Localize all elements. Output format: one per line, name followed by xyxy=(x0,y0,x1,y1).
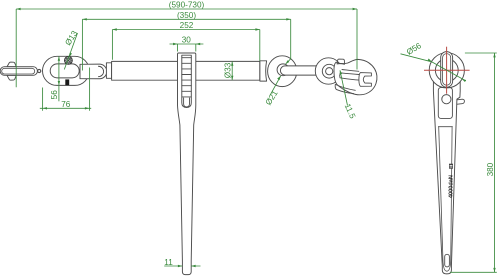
dia21 leader xyxy=(270,76,281,95)
svg-text:(590-730): (590-730) xyxy=(169,1,205,10)
dia56 leader xyxy=(401,54,466,81)
panel hole xyxy=(442,95,451,104)
arrows (590-730) xyxy=(16,8,357,10)
arrow dia13 xyxy=(70,53,72,57)
handle marking text xyxy=(449,164,455,198)
arrows 76 xyxy=(43,107,90,109)
arrows 56 xyxy=(58,56,60,85)
svg-text:11: 11 xyxy=(164,258,173,267)
dim 252 line xyxy=(112,29,259,31)
centerlines xyxy=(424,47,470,94)
ratchet rungs xyxy=(182,58,192,97)
link wire cross-section (hatched) xyxy=(65,57,73,65)
dia13 leader xyxy=(64,33,77,70)
dim 56 line xyxy=(58,56,60,101)
dim (350) line xyxy=(82,18,290,20)
centerline vertical xyxy=(446,47,448,94)
dim 76 line xyxy=(40,107,91,109)
svg-text:252: 252 xyxy=(180,21,194,30)
svg-text:30: 30 xyxy=(182,36,192,45)
dim (590-730) line xyxy=(16,8,357,10)
arrows 252 xyxy=(112,28,259,30)
pawl lever xyxy=(454,99,464,104)
dim 30 line xyxy=(170,43,204,45)
svg-text:4000daN: 4000daN xyxy=(449,175,455,198)
ratchet head circle xyxy=(429,53,464,88)
arrows dia33 xyxy=(231,61,233,80)
right hook latch tab xyxy=(337,59,345,64)
slot bottom detail xyxy=(184,98,190,107)
connecting rod xyxy=(280,66,329,75)
swivel collar xyxy=(106,63,111,79)
svg-text:380: 380 xyxy=(486,162,495,176)
arrow 11.5 xyxy=(340,70,343,74)
ratchet housing xyxy=(178,53,196,275)
left grab hook xyxy=(0,62,41,80)
svg-text:Ø33: Ø33 xyxy=(224,62,233,78)
svg-text:Ø13: Ø13 xyxy=(63,29,79,47)
left oval link xyxy=(43,56,90,85)
side handle inner outline xyxy=(439,127,452,272)
centerline horizontal xyxy=(424,69,470,71)
right hook jaw slot xyxy=(340,70,359,81)
right hook rod ring xyxy=(322,64,336,78)
arrows 30 xyxy=(173,43,200,45)
side handle top panel xyxy=(438,88,452,119)
right eye xyxy=(268,56,297,87)
svg-text:11.5: 11.5 xyxy=(343,102,358,120)
right collar xyxy=(260,61,267,81)
arrow dia21 xyxy=(277,76,281,80)
link end-on (stadium) xyxy=(441,52,453,88)
arrows 11 xyxy=(178,265,196,267)
eye hole xyxy=(277,64,289,76)
right hook fork claw xyxy=(359,73,372,87)
arrows 380 xyxy=(493,53,495,272)
arrows (350) xyxy=(82,18,290,64)
right hook chain channel xyxy=(335,84,355,93)
dim 380 xyxy=(494,53,496,272)
svg-text:(350): (350) xyxy=(177,11,196,20)
barrel body xyxy=(112,61,260,80)
ratchet head inner circle xyxy=(435,59,458,82)
weld mark on link xyxy=(65,79,69,85)
dim 11.5 leader xyxy=(340,70,348,105)
dim 11 xyxy=(164,265,200,267)
ratchet slot xyxy=(182,55,192,107)
svg-text:Ø56: Ø56 xyxy=(405,41,423,57)
side handle cross band xyxy=(438,126,452,128)
swivel eye xyxy=(80,64,107,79)
right hook eye lug xyxy=(315,58,341,84)
bottom oval slot xyxy=(445,254,450,267)
svg-text:76: 76 xyxy=(61,100,71,109)
side handle xyxy=(433,80,460,274)
svg-text:56: 56 xyxy=(50,90,59,100)
svg-text:Ø21: Ø21 xyxy=(264,89,280,107)
right hook body xyxy=(334,59,377,94)
dia33 dim xyxy=(231,61,233,80)
arrows dia56 xyxy=(428,59,467,83)
